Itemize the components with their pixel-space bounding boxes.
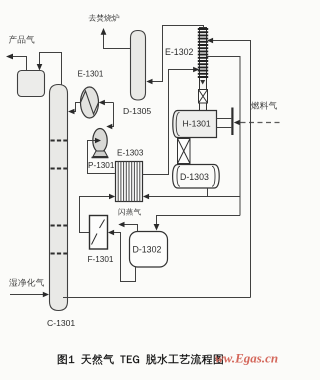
label 产品气	[9, 35, 35, 43]
filter F-1301	[90, 216, 108, 250]
wire E-1303 right to still column feed	[143, 70, 197, 175]
wire D-1303 bottom stub	[207, 188, 209, 197]
label 闪蒸气	[119, 208, 141, 215]
svg-text:P-1301: P-1301	[88, 161, 115, 170]
internal wedge below fins	[200, 80, 205, 85]
surge drum D-1303	[173, 165, 220, 189]
flash drum D-1302	[130, 232, 168, 268]
arrow into E-1303 left	[109, 194, 115, 200]
arrow product gas left	[6, 54, 13, 60]
wire wet gas inlet	[10, 294, 45, 296]
wire D-1302 bottom to filter	[112, 233, 136, 282]
wire rich glycol up into condenser	[211, 41, 251, 298]
arrow into column right wall	[68, 109, 75, 115]
arrow into F-1301 right	[108, 230, 114, 236]
tray 3	[51, 225, 68, 227]
svg-text:E-1302: E-1302	[165, 47, 193, 57]
arrow up incinerator	[101, 28, 107, 35]
wire E-1301 left to column top	[72, 103, 81, 112]
svg-text:F-1301: F-1301	[88, 255, 114, 264]
wire condenser outlet down right	[207, 57, 241, 216]
svg-text:D-1303: D-1303	[180, 172, 209, 182]
arrow into E-1303 right	[143, 194, 149, 200]
arrow flash gas left	[118, 222, 124, 228]
fuel gas arrow	[234, 120, 240, 126]
wire filter to E-1303 left	[80, 197, 112, 233]
wire D-1305 to incinerator	[104, 33, 131, 49]
burner bar	[231, 108, 233, 136]
packing X in still column	[199, 90, 208, 104]
wire column bottom to right riser	[63, 297, 251, 299]
heat exchanger E-1301	[81, 87, 99, 118]
label 燃料气	[251, 101, 277, 109]
svg-text:E-1301: E-1301	[78, 70, 104, 79]
packing X between reboiler and surge drum	[178, 139, 191, 164]
label 去焚烧炉	[89, 14, 120, 22]
wire still top to D-1305	[150, 26, 204, 82]
arrow into pump top	[106, 124, 112, 130]
arrow into pump	[95, 138, 101, 144]
condenser fins on still column	[198, 29, 208, 77]
arrow into condenser right	[207, 38, 213, 44]
fuel gas dashed line	[241, 122, 281, 124]
wire into E-1303 right	[147, 196, 240, 198]
wire flash gas from D-1302	[122, 225, 138, 232]
figure caption	[58, 354, 223, 365]
svg-text:H-1301: H-1301	[183, 119, 211, 129]
label 湿净化气	[9, 279, 44, 287]
tray 1	[51, 140, 68, 142]
wire E-1301 right from pump riser	[103, 102, 114, 104]
absorber column C-1301	[50, 85, 68, 311]
svg-text:E-1303: E-1303	[117, 149, 144, 158]
plate exchanger E-1303	[116, 162, 143, 202]
inlet separator drum top-left	[18, 71, 45, 97]
wire pump suction from E-1303 left	[88, 141, 116, 174]
tray 2	[51, 168, 68, 170]
svg-text:ww.Egas.cn: ww.Egas.cn	[215, 351, 278, 366]
svg-text:C-1301: C-1301	[47, 318, 75, 328]
still column E-1302 body	[200, 28, 207, 111]
burner stubs	[217, 119, 232, 128]
pump P-1301	[92, 129, 109, 158]
arrow into drum top	[37, 64, 43, 71]
arrow into D-1305 right	[146, 79, 152, 85]
column D-1305	[131, 31, 146, 101]
svg-text:D-1302: D-1302	[133, 245, 162, 255]
arrow into still column left	[193, 67, 199, 73]
wire rich glycol into D-1302 top	[157, 216, 241, 226]
svg-text:D-1305: D-1305	[123, 106, 151, 116]
tray 4	[51, 253, 68, 255]
wire column top to drum	[40, 53, 62, 85]
reboiler H-1301	[173, 111, 217, 138]
wire drum to product arrow	[8, 57, 27, 71]
arrow into D-1302 top	[154, 224, 160, 231]
arrow into column bottom	[43, 292, 49, 298]
